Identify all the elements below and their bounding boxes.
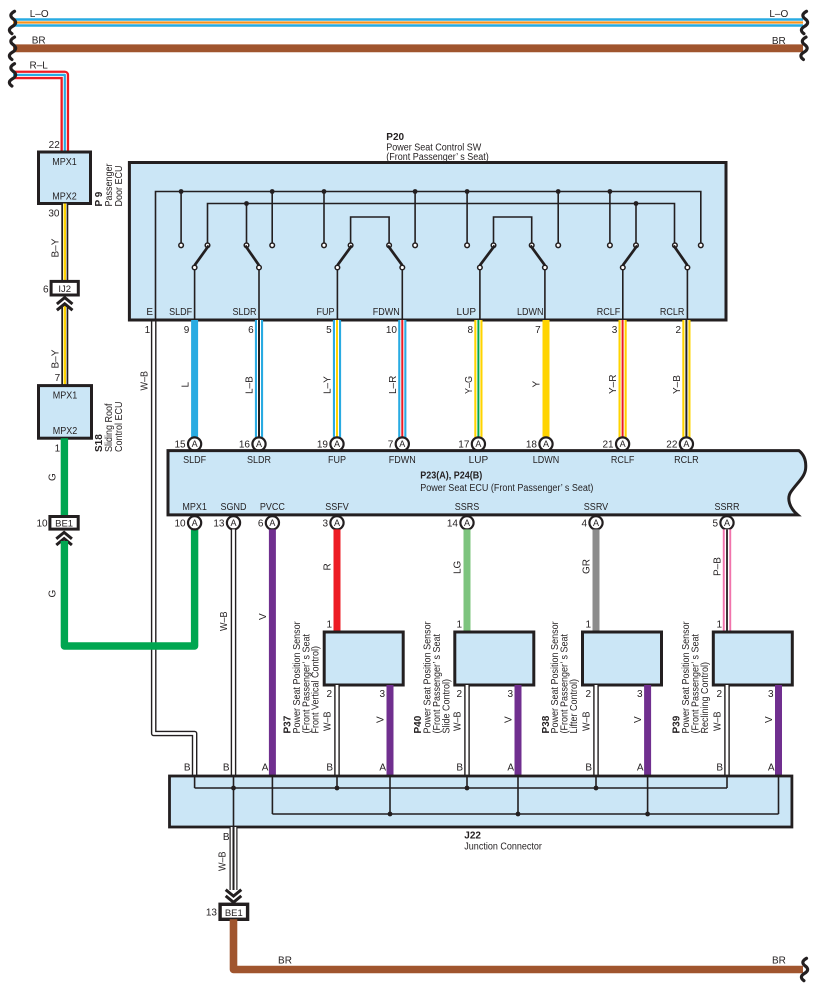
- svg-text:MPX2: MPX2: [53, 426, 78, 437]
- svg-text:J22: J22: [464, 831, 481, 842]
- svg-text:W–B: W–B: [582, 711, 593, 731]
- junction dots on second bus: [244, 201, 249, 206]
- junction connector BE1 (lower): [220, 904, 248, 919]
- svg-text:A: A: [507, 763, 514, 774]
- wire R from ECU pin 3 SSFV to P37 pin 1: [334, 529, 341, 632]
- wire W-B from P38 pin 2 to J22: [593, 685, 599, 776]
- svg-text:Y–R: Y–R: [608, 375, 619, 394]
- svg-text:SLDR: SLDR: [233, 307, 257, 318]
- svg-text:A: A: [637, 763, 644, 774]
- svg-text:LUP: LUP: [457, 307, 477, 318]
- svg-text:A: A: [475, 439, 481, 449]
- svg-text:22: 22: [666, 440, 678, 451]
- svg-text:RCLF: RCLF: [611, 455, 635, 466]
- second common bus inside P20: [208, 204, 675, 244]
- svg-text:W–B: W–B: [140, 371, 151, 391]
- svg-text:B–Y: B–Y: [51, 349, 62, 368]
- svg-text:18: 18: [526, 440, 538, 451]
- wire Y-G from P20 pin 8 to ECU pin 17 (LUP): [474, 320, 482, 437]
- svg-text:Slide Control): Slide Control): [441, 679, 452, 734]
- svg-text:BR: BR: [772, 36, 786, 47]
- svg-text:1: 1: [326, 619, 332, 630]
- svg-text:V: V: [258, 613, 269, 620]
- svg-text:RCLR: RCLR: [674, 455, 699, 466]
- wire G from S18 pin 1 to junction BE1: [61, 438, 68, 516]
- svg-text:W–B: W–B: [713, 711, 724, 731]
- svg-text:2: 2: [676, 325, 682, 336]
- svg-text:A: A: [334, 518, 340, 528]
- svg-text:RCLF: RCLF: [597, 307, 621, 318]
- svg-text:5: 5: [712, 518, 718, 529]
- wire W-B from ECU pin 13 SGND through J22 to BE1: [231, 529, 237, 776]
- svg-text:B: B: [223, 763, 230, 774]
- svg-text:3: 3: [379, 689, 385, 700]
- svg-text:MPX1: MPX1: [53, 391, 78, 402]
- continuation chevrons below BE1: [56, 532, 72, 538]
- svg-text:V: V: [764, 716, 775, 723]
- wire V from P38 pin 3 to J22: [644, 685, 651, 776]
- sensor block P38 Power Seat Position Sensor: [583, 632, 662, 685]
- svg-text:PVCC: PVCC: [260, 502, 285, 513]
- wire Y-R from P20 pin 3 to ECU pin 21 (RCLF): [618, 320, 626, 437]
- svg-text:Y–G: Y–G: [464, 376, 475, 394]
- svg-text:7: 7: [55, 373, 61, 384]
- J22 lower internal bus joining A terminals: [272, 813, 778, 815]
- svg-text:Lifter Control): Lifter Control): [569, 679, 580, 734]
- svg-text:BE1: BE1: [55, 518, 73, 529]
- svg-text:21: 21: [602, 440, 614, 451]
- svg-text:SSRR: SSRR: [715, 502, 740, 513]
- svg-text:L: L: [180, 382, 191, 388]
- wire GR from ECU pin 4 SSRV to P38 pin 1: [593, 529, 600, 632]
- svg-text:A: A: [724, 518, 730, 528]
- stationary contact drop wires from second bus: [246, 204, 248, 244]
- svg-text:A: A: [593, 518, 599, 528]
- FDWN switch arm and pivot: [388, 246, 402, 266]
- svg-text:SGND: SGND: [221, 502, 247, 513]
- svg-text:MPX1: MPX1: [52, 157, 77, 168]
- continuation chevrons below IJ2: [57, 298, 73, 304]
- svg-text:Door ECU: Door ECU: [114, 166, 125, 207]
- svg-text:A: A: [262, 763, 269, 774]
- svg-text:LDWN: LDWN: [533, 455, 560, 466]
- junction connector IJ2: [51, 281, 78, 295]
- svg-text:2: 2: [585, 689, 591, 700]
- break symbol left end of BR wire: [9, 37, 15, 59]
- svg-text:P23(A), P24(B): P23(A), P24(B): [420, 471, 482, 482]
- J22 internal entry stubs from top edge: [194, 776, 196, 788]
- svg-text:W–B: W–B: [218, 851, 229, 871]
- svg-text:1: 1: [55, 443, 61, 454]
- internal E common line and top bus inside P20: [156, 192, 701, 321]
- svg-text:17: 17: [458, 440, 470, 451]
- wire V from P39 pin 3 to J22: [775, 685, 782, 776]
- svg-text:BE1: BE1: [225, 908, 243, 919]
- svg-text:A: A: [464, 518, 470, 528]
- break symbol left end of R-L wire: [9, 64, 15, 86]
- svg-text:L–O: L–O: [769, 9, 788, 20]
- svg-text:LUP: LUP: [469, 455, 489, 466]
- svg-text:SSRS: SSRS: [455, 502, 480, 513]
- svg-text:L–R: L–R: [388, 376, 399, 394]
- svg-text:MPX1: MPX1: [182, 502, 207, 513]
- svg-text:BR: BR: [772, 955, 786, 966]
- svg-text:IJ2: IJ2: [58, 284, 71, 295]
- svg-text:6: 6: [248, 325, 254, 336]
- svg-text:Y–B: Y–B: [672, 375, 683, 394]
- svg-text:RCLR: RCLR: [660, 307, 685, 318]
- wire G from BE1 to P23 ECU pin 10 MPX1: [64, 529, 194, 646]
- svg-text:A: A: [334, 439, 340, 449]
- svg-text:B: B: [326, 763, 333, 774]
- svg-text:19: 19: [317, 440, 329, 451]
- wire L-R from P20 pin 10 to ECU pin 7 (FDWN): [398, 320, 406, 437]
- svg-text:A: A: [379, 763, 386, 774]
- svg-text:7: 7: [388, 440, 394, 451]
- svg-text:L–Y: L–Y: [323, 376, 334, 394]
- sensor block P40 Power Seat Position Sensor: [455, 632, 534, 685]
- svg-text:SLDF: SLDF: [169, 307, 192, 318]
- ECU block S18 Sliding Roof Control ECU (MPX1/MPX2): [39, 386, 92, 439]
- svg-text:14: 14: [447, 518, 459, 529]
- RCLF switch arm and pivot: [623, 246, 637, 266]
- svg-text:3: 3: [322, 518, 328, 529]
- junction connector BE1 (upper): [50, 517, 78, 530]
- svg-text:Reclining Control): Reclining Control): [700, 662, 711, 734]
- svg-text:4: 4: [581, 518, 587, 529]
- svg-text:13: 13: [213, 518, 225, 529]
- svg-text:SSRV: SSRV: [584, 502, 609, 513]
- svg-text:1: 1: [585, 619, 591, 630]
- svg-text:Control ECU: Control ECU: [114, 402, 125, 453]
- svg-text:W–B: W–B: [323, 711, 334, 731]
- svg-text:BR: BR: [278, 955, 292, 966]
- svg-text:6: 6: [43, 284, 49, 295]
- svg-text:B: B: [456, 763, 463, 774]
- svg-text:2: 2: [716, 689, 722, 700]
- svg-text:Power Seat ECU (Front Passenge: Power Seat ECU (Front Passenger’ s Seat): [420, 483, 593, 494]
- wire Y from P20 pin 7 to ECU pin 18 (LDWN): [543, 320, 550, 437]
- wire V from ECU pin 6 PVCC to J22: [269, 529, 276, 776]
- svg-text:9: 9: [184, 325, 190, 336]
- wire L-Y from P20 pin 5 to ECU pin 19 (FUP): [333, 320, 341, 437]
- junction dots on J22 upper bus: [231, 786, 236, 791]
- svg-text:15: 15: [174, 440, 186, 451]
- SLDR switch arm and pivot: [245, 246, 259, 266]
- svg-text:LDWN: LDWN: [517, 307, 544, 318]
- svg-text:A: A: [620, 439, 626, 449]
- svg-text:G: G: [48, 590, 59, 598]
- svg-text:A: A: [399, 439, 405, 449]
- J22 pass-through wire for SGND: [233, 776, 235, 827]
- bridge link between LUP/LDWN inner contacts: [494, 217, 532, 243]
- svg-text:A: A: [683, 439, 689, 449]
- wire W-B from P40 pin 2 to J22: [464, 685, 470, 776]
- svg-text:R–L: R–L: [30, 60, 49, 71]
- svg-text:B: B: [184, 763, 191, 774]
- svg-text:B: B: [716, 763, 723, 774]
- svg-text:8: 8: [468, 325, 474, 336]
- svg-text:B–Y: B–Y: [51, 238, 62, 257]
- svg-text:3: 3: [768, 689, 774, 700]
- svg-text:SSFV: SSFV: [325, 502, 349, 513]
- svg-text:FUP: FUP: [328, 455, 346, 466]
- svg-text:SLDF: SLDF: [183, 455, 206, 466]
- wire Y-B from P20 pin 2 to ECU pin 22 (RCLR): [682, 320, 690, 437]
- stationary contacts (open circles): [179, 243, 184, 248]
- FUP switch arm and pivot: [337, 246, 351, 266]
- svg-text:3: 3: [637, 689, 643, 700]
- J22 upper internal bus joining B terminals: [195, 787, 727, 789]
- sensor block P39 Power Seat Position Sensor: [713, 632, 792, 685]
- svg-text:1: 1: [145, 325, 151, 336]
- break symbol right end of BR wire: [801, 37, 807, 59]
- svg-text:10: 10: [174, 518, 186, 529]
- wire L-B from P20 pin 6 to ECU pin 16 (SLDR): [255, 320, 263, 437]
- RCLR switch arm and pivot: [674, 246, 688, 266]
- svg-text:A: A: [269, 518, 275, 528]
- break symbol left end of L-O wire: [9, 11, 15, 33]
- svg-text:3: 3: [612, 325, 618, 336]
- svg-text:Front Vertical Control): Front Vertical Control): [311, 646, 322, 734]
- wire BR horizontal bus at top: [13, 44, 803, 52]
- svg-text:5: 5: [326, 325, 332, 336]
- svg-text:16: 16: [239, 440, 251, 451]
- junction connector block J22: [170, 776, 792, 827]
- svg-text:SLDR: SLDR: [247, 455, 271, 466]
- svg-text:A: A: [256, 439, 262, 449]
- svg-text:A: A: [543, 439, 549, 449]
- svg-text:L–B: L–B: [245, 376, 256, 394]
- LDWN switch arm and pivot: [531, 246, 545, 266]
- svg-text:FUP: FUP: [317, 307, 335, 318]
- wire W-B from P37 pin 2 to J22: [334, 685, 340, 776]
- stationary contact drop wires from top bus: [180, 192, 182, 244]
- svg-text:A: A: [192, 518, 198, 528]
- svg-text:W–B: W–B: [453, 711, 464, 731]
- svg-text:13: 13: [206, 907, 218, 918]
- svg-text:G: G: [48, 473, 59, 481]
- ECU block P9 Passenger Door ECU (MPX1/MPX2): [39, 152, 91, 204]
- wire L from P20 pin 9 to ECU pin 15 (SLDF): [191, 320, 198, 437]
- svg-text:BR: BR: [32, 36, 46, 47]
- svg-text:V: V: [504, 716, 515, 723]
- svg-text:3: 3: [507, 689, 513, 700]
- svg-text:30: 30: [48, 209, 60, 220]
- svg-text:MPX2: MPX2: [52, 192, 77, 203]
- wire W-B from J22 to lower BE1: [230, 827, 238, 890]
- bridge link between FUP/FDWN inner contacts: [351, 217, 390, 243]
- svg-text:L–O: L–O: [30, 9, 49, 20]
- svg-text:1: 1: [716, 619, 722, 630]
- svg-text:LG: LG: [453, 560, 464, 574]
- svg-text:2: 2: [456, 689, 462, 700]
- svg-text:Junction Connector: Junction Connector: [464, 842, 542, 853]
- svg-text:10: 10: [36, 518, 48, 529]
- svg-text:B: B: [585, 763, 592, 774]
- svg-text:B: B: [223, 832, 230, 843]
- svg-text:6: 6: [258, 518, 264, 529]
- svg-text:FDWN: FDWN: [373, 307, 400, 318]
- wire W-B from P20 pin 1 (E) down to junction connector J22: [154, 320, 195, 776]
- svg-text:A: A: [768, 763, 775, 774]
- wire R-L from left break to P9 door ECU pin 22: [13, 75, 65, 152]
- svg-text:W–B: W–B: [219, 611, 230, 631]
- switch block P20 Power Seat Control SW: [129, 163, 726, 321]
- junction dots on J22 lower bus: [388, 812, 393, 817]
- continuation chevrons above lower BE1: [226, 896, 242, 902]
- svg-text:FDWN: FDWN: [389, 455, 416, 466]
- svg-text:P–B: P–B: [713, 557, 724, 576]
- svg-text:V: V: [376, 716, 387, 723]
- break symbol at right end of bottom BR wire: [801, 958, 807, 980]
- wire LG from ECU pin 14 SSRS to P40 pin 1: [464, 529, 471, 632]
- SLDF switch arm and pivot: [195, 246, 209, 266]
- svg-text:10: 10: [386, 325, 398, 336]
- break symbol right end of L-O wire: [801, 11, 807, 33]
- wire B-Y from IJ2 to S18 pin 7: [61, 306, 68, 386]
- svg-text:Y: Y: [532, 381, 543, 388]
- svg-text:GR: GR: [582, 559, 593, 574]
- wire W-B from P39 pin 2 to J22: [724, 685, 730, 776]
- svg-text:2: 2: [326, 689, 332, 700]
- wire BR from BE1 to bottom right break: [234, 919, 804, 969]
- sensor block P37 Power Seat Position Sensor: [324, 632, 403, 685]
- svg-text:A: A: [230, 518, 236, 528]
- svg-text:R: R: [323, 563, 334, 570]
- wire L-O horizontal bus at top: [13, 18, 803, 27]
- wire V from P37 pin 3 to J22: [387, 685, 394, 776]
- ECU block P23(A) P24(B) Power Seat ECU (Front Passenger's Seat): [168, 451, 806, 515]
- junction dots on top bus: [179, 189, 184, 194]
- svg-text:A: A: [192, 439, 198, 449]
- wire V from P40 pin 3 to J22: [515, 685, 522, 776]
- svg-text:1: 1: [456, 619, 462, 630]
- svg-text:22: 22: [49, 140, 61, 151]
- svg-text:V: V: [633, 716, 644, 723]
- wire P-B from ECU pin 5 SSRR to P39 pin 1: [723, 529, 731, 632]
- svg-text:E: E: [146, 307, 153, 318]
- LUP switch arm and pivot: [480, 246, 495, 266]
- svg-text:7: 7: [535, 325, 541, 336]
- wire B-Y from P9 pin 30 to junction IJ2: [61, 204, 68, 282]
